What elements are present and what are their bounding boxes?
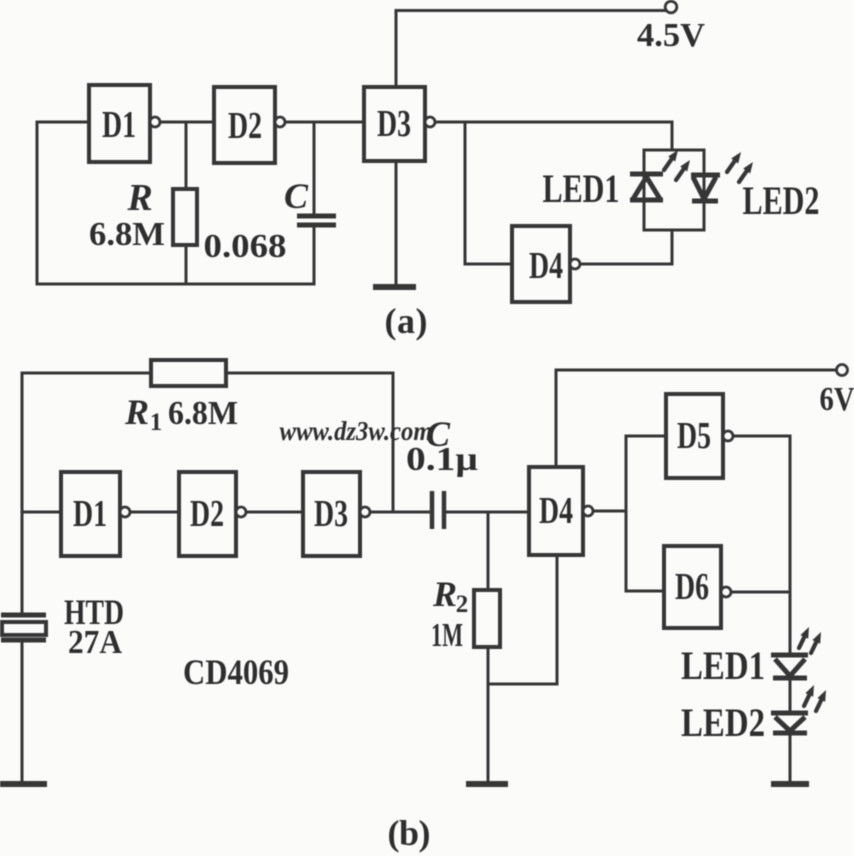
resistor R2: [474, 590, 500, 647]
wire: LED loop rectangle: [644, 150, 704, 230]
svg-text:D3: D3: [314, 493, 348, 535]
label C (b): [426, 414, 451, 454]
light arrows LED1 (a): [664, 150, 690, 180]
label 0.068: [204, 228, 287, 265]
wire: R1 right to drop: [226, 373, 393, 512]
svg-text:LED2: LED2: [681, 700, 765, 745]
wire: D4 output: [593, 510, 626, 513]
wire: drop to R2: [487, 512, 490, 590]
label C (a): [284, 176, 309, 216]
svg-text:R: R: [126, 177, 152, 219]
terminal 4.5V: [665, 1, 677, 13]
wire: D3 bottom to ground: [395, 161, 398, 285]
wire: C bottom to rail: [313, 227, 316, 284]
wire: D4 top to supply rail 6V: [556, 370, 836, 467]
wire: bottom rail (a): [37, 283, 314, 286]
inverter D3 (a): [364, 87, 435, 161]
label R1 6.8M: [124, 392, 238, 436]
wire: piezo bottom to ground: [21, 643, 24, 783]
wire: capacitor to D4 input: [446, 511, 529, 514]
svg-text:D2: D2: [190, 493, 224, 535]
wire: D6 input: [626, 590, 664, 593]
svg-text:D4: D4: [539, 490, 573, 532]
wire: top feedback to R1: [22, 372, 151, 375]
svg-text:D6: D6: [675, 566, 709, 608]
wire: D5 output right: [733, 435, 790, 438]
label HTD: [64, 592, 124, 632]
svg-text:(a): (a): [385, 301, 428, 341]
wire: LED2 to ground: [789, 735, 792, 783]
ground (b piezo): [0, 781, 47, 787]
wire: D1 input (a): [37, 121, 89, 124]
capacitor C (b) plates: [432, 491, 444, 529]
svg-text:4.5V: 4.5V: [637, 17, 705, 54]
wire: D5 input: [626, 435, 666, 438]
inverter D5: [666, 394, 733, 478]
inverter D4 (b): [529, 467, 593, 555]
svg-text:LED2: LED2: [743, 178, 820, 223]
resistor R1: [151, 360, 226, 386]
watermark: [280, 416, 433, 446]
label LED2 (a): [743, 178, 820, 223]
label LED1 (a): [543, 166, 620, 211]
wire: D1 to D2 (b): [130, 511, 179, 514]
wire: R2 net to D4 bottom: [488, 683, 557, 686]
wire: R2 bottom to ground: [487, 647, 490, 783]
svg-text:D5: D5: [677, 415, 711, 457]
svg-text:6.8M: 6.8M: [89, 216, 165, 253]
wire: D2 to D3 (b): [246, 511, 303, 514]
svg-text:1: 1: [150, 409, 163, 436]
label 27A: [68, 624, 122, 661]
LED LED1 (a): [630, 174, 663, 200]
svg-text:D3: D3: [377, 103, 411, 145]
svg-text:27A: 27A: [68, 624, 122, 661]
wire: D4 bottom drop: [556, 555, 559, 684]
svg-text:LED1: LED1: [681, 643, 765, 688]
ground (b left): [466, 781, 508, 787]
svg-text:LED1: LED1: [543, 166, 620, 211]
wire: left vertical rail (b): [21, 373, 24, 613]
inverter D1 (b): [61, 472, 130, 556]
wire: left vertical rail (a): [36, 122, 39, 284]
label R: [126, 177, 152, 219]
inverter D1 (a): [89, 85, 160, 162]
svg-text:(b): (b): [388, 813, 431, 853]
wire: branch down to D4 input: [465, 122, 512, 264]
label LED1 (b): [681, 643, 765, 688]
terminal 6V: [837, 365, 848, 376]
capacitor C plates: [297, 216, 336, 225]
LED LED1 (b): [771, 655, 808, 678]
inverter D6: [664, 546, 731, 628]
svg-text:0.1µ: 0.1µ: [406, 441, 478, 478]
wire: D6 output right: [731, 591, 790, 594]
svg-text:D1: D1: [102, 104, 136, 146]
wire: D4 output to LED loop: [580, 263, 672, 266]
light arrows LED2 (a): [727, 152, 753, 182]
wire: output vertical to LEDs: [789, 436, 792, 655]
wire: down to LED loop: [671, 122, 674, 150]
inverter D4 (a): [512, 226, 580, 302]
label R2: [432, 574, 468, 618]
svg-text:0.068: 0.068: [204, 228, 287, 265]
inverter D3 (b): [303, 472, 370, 556]
svg-text:C: C: [284, 176, 309, 216]
svg-text:R: R: [124, 392, 149, 432]
ground (b right): [771, 781, 809, 787]
label (a): [385, 301, 428, 341]
wire: split vertical: [625, 436, 628, 591]
wire: LED loop bottom down: [671, 230, 674, 264]
label 4.5V: [637, 17, 705, 54]
LED LED2 (b): [771, 713, 808, 733]
wire: drop to capacitor C: [313, 122, 316, 214]
LED LED2 (a): [691, 175, 720, 201]
label 0.1u: [406, 441, 478, 478]
svg-text:R: R: [432, 574, 457, 614]
resistor R: [173, 189, 197, 245]
wire: D3 top to supply rail: [396, 11, 666, 88]
wire: D3 output to capacitor: [370, 511, 430, 514]
svg-text:D2: D2: [228, 105, 262, 147]
label LED2 (b): [681, 700, 765, 745]
wire: R bottom to rail: [185, 245, 188, 284]
light arrows LED2 (b): [804, 685, 826, 711]
svg-text:D4: D4: [529, 245, 563, 287]
svg-text:6.8M: 6.8M: [168, 395, 238, 432]
wire: D3 output right: [435, 121, 672, 124]
svg-text:CD4069: CD4069: [183, 652, 289, 692]
label (b): [388, 813, 431, 853]
inverter D2 (a): [214, 87, 285, 163]
light arrows LED1 (b): [799, 627, 821, 653]
label CD4069: [183, 652, 289, 692]
svg-text:2: 2: [456, 591, 469, 618]
wire: drop to resistor R: [185, 122, 188, 189]
svg-text:6V: 6V: [820, 381, 854, 418]
wire: D1 input (b): [22, 511, 61, 514]
label 6.8M: [89, 216, 165, 253]
ground (a): [373, 284, 416, 290]
wire: between LEDs: [789, 680, 792, 713]
inverter D2 (b): [179, 472, 246, 556]
wire: D2 output to D3 input: [285, 121, 364, 124]
label 6V: [820, 381, 854, 418]
piezo sounder HTD27A: [1, 615, 46, 640]
svg-text:D1: D1: [73, 493, 107, 535]
svg-text:1M: 1M: [431, 617, 463, 654]
wire: D1 output to D2 input: [160, 121, 214, 124]
label 1M: [431, 617, 463, 654]
